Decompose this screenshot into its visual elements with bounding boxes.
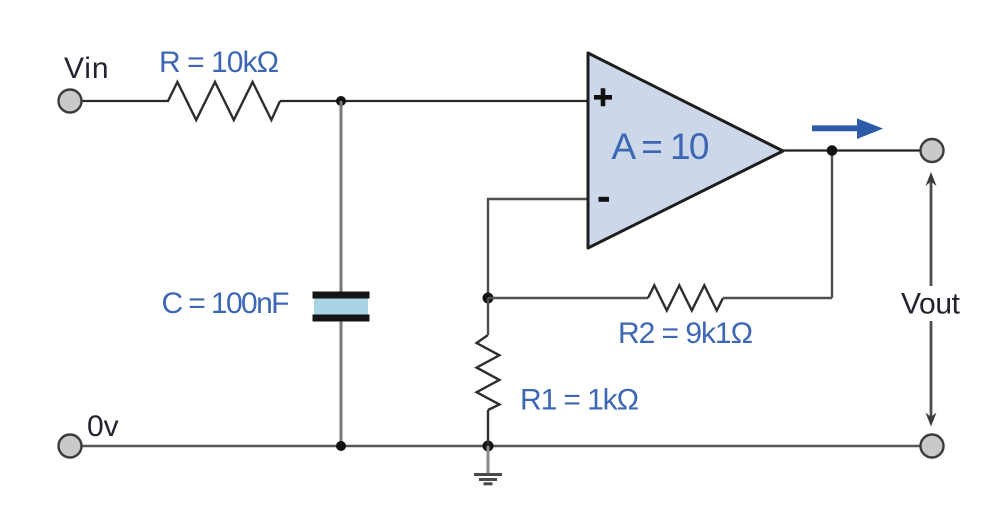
node output junction (827, 145, 838, 156)
terminal Vout top (921, 139, 944, 162)
resistor R2 (648, 285, 723, 310)
wire resistor R to op-amp + input (280, 100, 588, 102)
svg-text:A = 10: A = 10 (612, 126, 710, 167)
wire feedback node to resistor R1 (487, 298, 489, 335)
ground bar 2 (479, 478, 497, 481)
terminal 0v left (59, 435, 82, 458)
node junction capacitor on 0v rail (336, 441, 346, 451)
svg-text:0v: 0v (87, 410, 119, 443)
resistor R1 (477, 335, 500, 410)
Vout measurement arrowhead top (926, 172, 937, 186)
ground bar 3 (484, 482, 493, 485)
wire op-amp output to Vout terminal (783, 149, 922, 151)
op-amp + input symbol (594, 88, 612, 106)
wire node A down to capacitor C (340, 101, 343, 293)
svg-text:R1 = 1kΩ: R1 = 1kΩ (520, 384, 639, 417)
terminal Vin (59, 90, 82, 113)
label Vout background (898, 286, 966, 321)
Vout measurement arrowhead bottom (926, 413, 937, 427)
terminal 0v right (921, 435, 944, 458)
wire inverting input from op-amp to corner (488, 199, 588, 298)
capacitor C top plate (313, 292, 370, 299)
0v rail wire (78, 445, 926, 447)
wire output branch vertical (831, 151, 833, 299)
wire Vin terminal to resistor R (78, 100, 169, 102)
svg-text:R = 10kΩ: R = 10kΩ (159, 46, 279, 79)
node feedback junction (483, 293, 494, 304)
wire feedback node to resistor R2 (488, 297, 648, 299)
resistor R (168, 82, 280, 120)
output direction arrow (812, 118, 883, 139)
wire capacitor C to 0v rail (340, 322, 343, 447)
op-amp - input symbol (599, 197, 610, 202)
wire resistor R1 to 0v rail (487, 410, 489, 446)
ground stem (487, 446, 490, 474)
op-amp U1 body (588, 53, 783, 248)
Vout measurement arrow line (930, 180, 933, 418)
svg-text:Vin: Vin (64, 52, 109, 85)
node A junction (336, 96, 346, 106)
svg-text:R2 = 9k1Ω: R2 = 9k1Ω (618, 317, 753, 350)
ground bar 1 (474, 473, 502, 476)
wire resistor R2 to output branch (723, 297, 832, 299)
capacitor C bottom plate (313, 315, 370, 322)
svg-text:C = 100nF: C = 100nF (162, 287, 290, 320)
svg-text:Vout: Vout (901, 288, 961, 321)
node junction R1 on 0v rail (483, 441, 494, 452)
capacitor C dielectric (314, 299, 368, 315)
